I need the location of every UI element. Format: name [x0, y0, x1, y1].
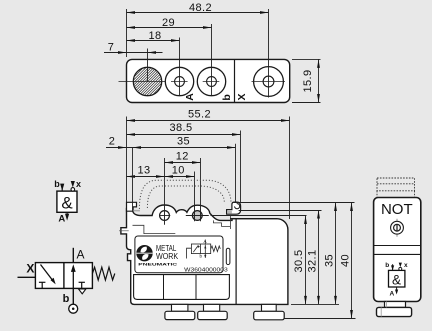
input b	[392, 264, 394, 270]
metal work logo disc	[136, 245, 152, 261]
phantom dashed connector	[377, 178, 415, 197]
port circle X	[254, 67, 284, 97]
interior vertical x=230.4	[229, 216, 231, 230]
svg-text:A: A	[204, 239, 207, 244]
ext line left x=126.5 (top)	[126, 9, 128, 57]
hatched circle (plugged port)	[133, 67, 161, 95]
ext line to X circle	[268, 9, 270, 98]
output A	[396, 287, 398, 290]
svg-text:b: b	[63, 293, 70, 305]
label plate	[135, 236, 223, 273]
ext line to b circle	[211, 24, 213, 96]
right cell flow arrow up	[72, 269, 74, 288]
dim line 40	[351, 203, 353, 319]
svg-text:40: 40	[340, 254, 352, 267]
ext segments through lobe holes	[164, 205, 166, 225]
svg-text:&: &	[61, 193, 73, 212]
exhaust triangle	[79, 289, 86, 294]
pilot b line	[72, 288, 74, 304]
dim line 29	[127, 27, 212, 29]
right cell blocked port T	[79, 281, 85, 283]
dim line 30.5	[305, 216, 307, 305]
small and-gate box	[389, 270, 405, 287]
svg-text:7: 7	[108, 41, 115, 53]
left hook (DIN clip)	[127, 202, 137, 211]
lobe1 mounting hole	[160, 211, 170, 221]
svg-text:38.5: 38.5	[169, 122, 192, 134]
svg-text:13: 13	[137, 164, 150, 176]
foot 1 (side view)	[172, 304, 188, 311]
ext 35/40 top	[234, 202, 355, 204]
ext bottom common	[291, 303, 339, 305]
foot 2 (side view)	[204, 304, 220, 311]
svg-text:A: A	[184, 93, 196, 101]
svg-text:18: 18	[148, 30, 161, 42]
ext line to A circle	[179, 38, 181, 97]
svg-text:X: X	[26, 261, 34, 275]
slot on body right of label	[226, 248, 230, 264]
arrows 38.5	[127, 133, 136, 136]
lobe2 mounting hole (shaded)	[192, 211, 202, 221]
port circle A	[165, 67, 193, 95]
phantom dotted arcs (connector swing)	[139, 180, 231, 209]
right hook (DIN clip)	[227, 202, 241, 214]
front body	[374, 198, 421, 302]
left cell blocked port T	[39, 281, 46, 283]
svg-text:b: b	[385, 262, 389, 269]
input x arrow + inversion bubble	[71, 181, 75, 187]
front foot base	[377, 307, 412, 316]
ext x=289.5 (55.2 right)	[289, 117, 291, 220]
port divider line	[234, 59, 236, 102]
svg-text:48.2: 48.2	[189, 2, 212, 14]
svg-text:WORK: WORK	[156, 252, 179, 261]
ext 40 bottom	[285, 318, 356, 320]
arrows 18	[127, 39, 136, 42]
and-gate box	[57, 191, 77, 212]
port A line	[72, 248, 74, 263]
svg-text:35: 35	[324, 254, 336, 267]
port circle b	[197, 67, 225, 95]
dim line 55.2	[127, 120, 290, 122]
interior step lines top-left	[133, 225, 176, 233]
input b line + arrow	[61, 184, 63, 191]
ext x=164.5 (12/10 left, 13 right: lobe1 center)	[164, 158, 166, 222]
block top edge	[230, 218, 277, 220]
svg-text:A: A	[58, 213, 65, 224]
svg-text:A: A	[389, 290, 394, 297]
dim line 32.1	[318, 211, 320, 305]
spring	[92, 267, 114, 280]
ext 32.1 top	[239, 210, 322, 212]
pilot circle with dot	[69, 304, 78, 313]
arrows 55.2	[127, 119, 136, 122]
svg-text:32.1: 32.1	[307, 249, 319, 272]
left cell diagonal arrow	[41, 265, 54, 282]
svg-text:PNEUMATIC: PNEUMATIC	[138, 262, 177, 267]
divider lines	[374, 245, 421, 247]
svg-text:35: 35	[177, 136, 190, 148]
arrows 13	[127, 175, 136, 178]
svg-text:b: b	[221, 94, 233, 100]
svg-text:X: X	[236, 93, 248, 100]
dim line 18	[127, 40, 180, 42]
dim line 48.2	[127, 12, 269, 14]
arrows 7 (outside)	[118, 51, 127, 54]
interior step lines top-right	[213, 220, 230, 226]
svg-text:12: 12	[176, 150, 189, 162]
output A line + arrow	[66, 212, 68, 215]
ext x=235.5 (35 right)	[235, 144, 237, 203]
feet stem shading	[173, 305, 263, 311]
terminal row	[134, 275, 230, 300]
ext line 2-dim right (x=132.5)	[132, 148, 134, 211]
svg-text:x: x	[76, 179, 81, 189]
body rear top edge + 30.5 ext line	[211, 215, 307, 217]
dim line 12	[165, 162, 201, 164]
top view body	[127, 59, 290, 102]
dim line 35	[335, 203, 337, 305]
arrows 12	[165, 161, 174, 164]
svg-text:15.9: 15.9	[302, 69, 314, 92]
svg-text:b: b	[54, 179, 60, 189]
dim line 38.5	[127, 134, 241, 136]
valve body squares	[35, 263, 92, 289]
dim line 2 and 35	[106, 147, 236, 149]
arrows 29	[127, 26, 136, 29]
foot 3 (side view)	[262, 304, 277, 311]
ext x=194.5 (10 right)	[194, 172, 196, 222]
dim 15.9 (right of top view)	[292, 59, 321, 102]
screw	[396, 219, 398, 237]
svg-text:x: x	[404, 262, 408, 269]
port X line	[18, 276, 36, 278]
svg-text:W3604000003: W3604000003	[184, 267, 228, 273]
svg-text:NOT: NOT	[381, 201, 413, 218]
svg-text:&: &	[392, 272, 401, 287]
svg-text:55.2: 55.2	[188, 108, 211, 120]
dim line 7	[104, 52, 163, 54]
right block left edge	[235, 219, 237, 305]
left tab with centerline	[119, 230, 129, 232]
arrows 10	[165, 175, 174, 178]
hatched circle centerline	[119, 81, 169, 83]
arrows 48.2	[127, 11, 136, 14]
dim line 13 and 10	[127, 176, 195, 178]
input x with bubble	[399, 263, 402, 268]
arrows 2 / 35	[118, 146, 127, 149]
svg-text:A: A	[76, 247, 84, 261]
svg-text:30.5: 30.5	[293, 249, 305, 272]
ext x=126.5 (55.2/38.5/13 left)	[126, 117, 128, 203]
side view body silhouette	[121, 205, 288, 304]
ext line to hatched circle	[147, 49, 149, 82]
svg-text:2: 2	[109, 136, 116, 148]
svg-text:10: 10	[172, 164, 185, 176]
mini pneumatic symbol on label	[187, 240, 221, 259]
svg-text:29: 29	[162, 17, 175, 29]
front foot stem	[385, 302, 406, 308]
ext x=240 (38.5 right)	[240, 131, 242, 204]
ext x=200.5 (12 right)	[200, 158, 202, 221]
